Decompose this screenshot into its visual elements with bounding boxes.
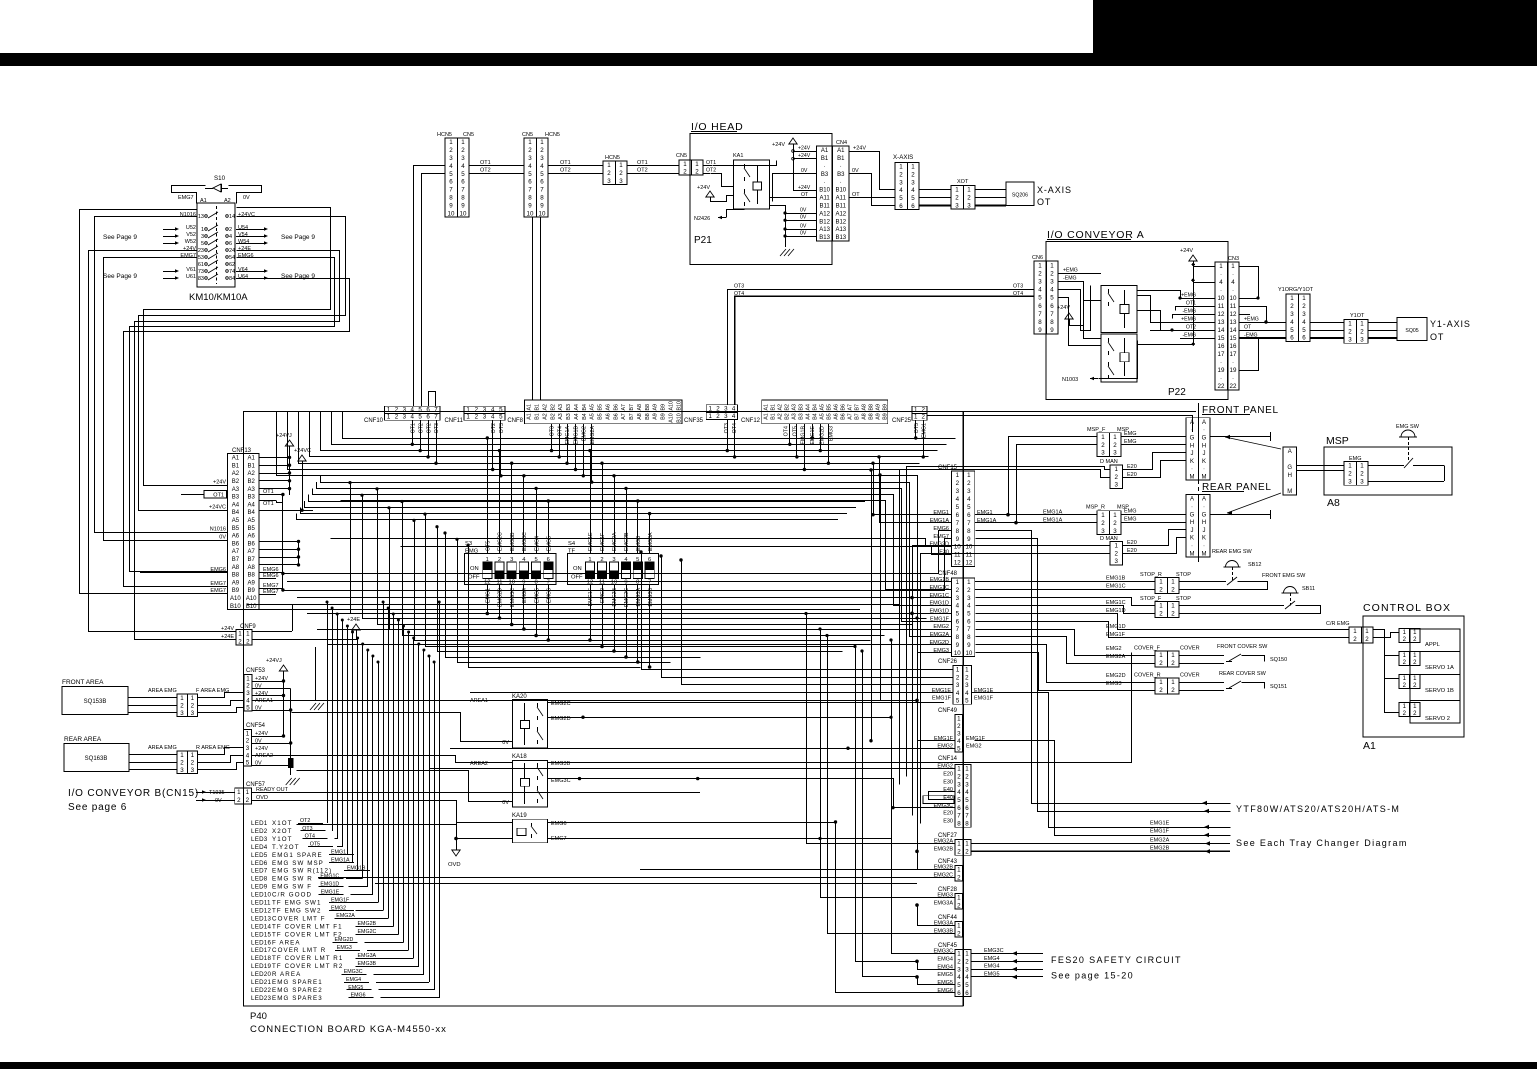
svg-text:A3: A3 <box>558 404 564 411</box>
svg-text:COVER LMT R: COVER LMT R <box>272 947 326 954</box>
svg-text:J: J <box>1203 451 1206 457</box>
svg-text:3: 3 <box>956 595 960 602</box>
svg-text:AREA2: AREA2 <box>255 753 273 759</box>
svg-text:+24VJ: +24VJ <box>266 658 282 664</box>
wire feed CNF45 EMG6 from KA19 <box>836 823 956 993</box>
svg-text:Y1OT: Y1OT <box>1350 313 1365 319</box>
wire MSP internal loop <box>1368 465 1404 467</box>
wire STOP_F loop <box>1179 605 1284 607</box>
svg-text:CN5: CN5 <box>676 153 687 159</box>
svg-text:3: 3 <box>528 155 532 162</box>
svg-text:4: 4 <box>732 406 736 413</box>
svg-text:OT1: OT1 <box>480 160 491 166</box>
svg-text:P22: P22 <box>1168 387 1186 398</box>
svg-text:B1: B1 <box>248 463 256 469</box>
svg-text:2: 2 <box>957 874 961 881</box>
footer black bar <box>0 1062 1537 1069</box>
connector SERVO 1A <box>1399 652 1420 666</box>
svg-text:B7: B7 <box>854 413 860 420</box>
svg-text:10: 10 <box>1230 295 1237 302</box>
svg-text:V52: V52 <box>186 232 196 238</box>
svg-text:T1935: T1935 <box>209 790 225 796</box>
svg-text:A8: A8 <box>861 413 867 420</box>
svg-text:EMG2D: EMG2D <box>1106 673 1126 679</box>
svg-text:1: 1 <box>957 951 961 958</box>
wire +24VC pin14 wrap <box>139 217 346 511</box>
wire 0V B3 <box>773 174 817 202</box>
svg-text:B6: B6 <box>232 541 240 547</box>
wire STOP_R loop <box>1179 581 1226 583</box>
svg-text:5: 5 <box>499 407 503 414</box>
svg-text:B4: B4 <box>812 404 818 411</box>
svg-text:+24V: +24V <box>213 480 226 486</box>
svg-text:4: 4 <box>957 789 961 796</box>
svg-text:EMG SPARE1: EMG SPARE1 <box>272 979 323 986</box>
svg-text:EMG SPARE3: EMG SPARE3 <box>272 995 323 1002</box>
svg-text:EMG2B: EMG2B <box>624 532 630 551</box>
svg-text:3: 3 <box>1050 278 1054 285</box>
svg-text:B8: B8 <box>868 404 874 411</box>
svg-text:CNF15: CNF15 <box>938 465 958 471</box>
svg-text:A8: A8 <box>637 404 643 411</box>
svg-text:EMG3A: EMG3A <box>358 953 377 959</box>
svg-text:2: 2 <box>246 738 250 745</box>
wire feed CNF45 EMG3C <box>892 641 956 954</box>
svg-text:2: 2 <box>695 168 699 175</box>
svg-text:EMG2B: EMG2B <box>934 847 954 853</box>
svg-text:5: 5 <box>1038 295 1042 302</box>
svg-text:G: G <box>1190 512 1195 518</box>
contactor KM10/KM10A <box>197 203 235 287</box>
svg-text:KA20: KA20 <box>512 694 527 700</box>
svg-text:1: 1 <box>965 667 969 674</box>
svg-text:3: 3 <box>483 414 487 421</box>
svg-text:24: 24 <box>229 248 235 254</box>
wire feed CNF5 EMG2 <box>450 748 848 750</box>
svg-text:·: · <box>1232 287 1234 294</box>
svg-text:A10: A10 <box>246 596 257 602</box>
svg-text:CN5: CN5 <box>522 132 533 138</box>
svg-text:1: 1 <box>1171 679 1175 686</box>
svg-text:A1: A1 <box>1363 740 1376 752</box>
svg-text:A: A <box>1202 420 1206 426</box>
svg-text:6: 6 <box>956 618 960 625</box>
svg-text:1: 1 <box>1353 628 1357 635</box>
wire feed CNF5 EMG1F tall vertical <box>871 471 873 741</box>
svg-text:B10: B10 <box>835 188 846 194</box>
svg-text:E40: E40 <box>943 787 953 793</box>
svg-text:1: 1 <box>956 667 960 674</box>
wire S3 tops to bus <box>487 438 489 537</box>
svg-text:0V: 0V <box>502 800 509 806</box>
wire feeds CNF26 rows 1-3 <box>642 553 954 670</box>
svg-text:REAR AREA: REAR AREA <box>64 736 102 743</box>
svg-text:B8: B8 <box>232 573 240 579</box>
svg-text:A7: A7 <box>232 549 240 555</box>
svg-text:6: 6 <box>899 203 903 210</box>
svg-text:A4: A4 <box>574 404 580 411</box>
wire band rows below CNF13 <box>247 604 900 606</box>
svg-text:B9: B9 <box>661 413 667 420</box>
svg-text:1: 1 <box>695 161 699 168</box>
svg-text:3: 3 <box>1113 528 1117 535</box>
svg-text:2: 2 <box>1353 636 1357 643</box>
svg-text:A10: A10 <box>668 401 674 410</box>
svg-text:1: 1 <box>191 695 195 702</box>
svg-text:A12: A12 <box>819 211 830 217</box>
svg-text:1: 1 <box>1360 463 1364 470</box>
svg-text:2: 2 <box>1159 660 1163 667</box>
svg-text:2: 2 <box>956 587 960 594</box>
svg-text:8: 8 <box>956 634 960 641</box>
svg-text:2: 2 <box>1365 636 1369 643</box>
svg-text:2: 2 <box>461 147 465 154</box>
svg-text:EMG1F: EMG1F <box>934 736 954 742</box>
wire EMG1C row <box>975 589 1155 591</box>
svg-text:OT: OT <box>1430 332 1444 342</box>
svg-text:4: 4 <box>911 187 915 194</box>
wire CN3 OT <box>1239 330 1286 332</box>
svg-text:11: 11 <box>599 580 605 586</box>
svg-text:B10: B10 <box>676 401 682 410</box>
svg-text:1: 1 <box>238 631 242 638</box>
svg-text:LED21: LED21 <box>251 979 271 986</box>
svg-text:10: 10 <box>527 210 534 217</box>
svg-text:EMG7: EMG7 <box>180 253 196 259</box>
svg-text:B5: B5 <box>826 404 832 411</box>
svg-text:K: K <box>1190 536 1194 542</box>
svg-text:7: 7 <box>967 520 971 527</box>
svg-text:+24E: +24E <box>347 617 360 623</box>
svg-text:A4: A4 <box>805 413 811 420</box>
svg-text:B1: B1 <box>232 463 240 469</box>
svg-text:0V: 0V <box>243 195 250 201</box>
wire EMG7 long row <box>283 539 952 591</box>
svg-text:MSP_F: MSP_F <box>1087 427 1106 433</box>
svg-text:FES20 SAFETY CIRCUIT: FES20 SAFETY CIRCUIT <box>1051 955 1182 965</box>
svg-text:2: 2 <box>1348 329 1352 336</box>
svg-text:8: 8 <box>540 194 544 201</box>
svg-text:1: 1 <box>1290 295 1294 302</box>
wire CNF12 signal drops <box>789 424 791 445</box>
svg-text:2: 2 <box>1101 520 1105 527</box>
svg-text:AREA EMG: AREA EMG <box>148 688 177 694</box>
svg-text:CNF12: CNF12 <box>741 418 761 424</box>
svg-text:2: 2 <box>1360 329 1364 336</box>
svg-text:B4: B4 <box>232 510 240 516</box>
svg-text:+24V: +24V <box>772 142 785 148</box>
svg-text:LED18: LED18 <box>251 955 271 962</box>
svg-text:2: 2 <box>475 414 479 421</box>
svg-text:5: 5 <box>965 982 969 989</box>
svg-text:OT2: OT2 <box>706 168 716 174</box>
svg-text:X2OT: X2OT <box>272 828 293 835</box>
svg-text:B1: B1 <box>837 156 845 162</box>
svg-text:0V: 0V <box>502 740 509 746</box>
svg-text:SB11: SB11 <box>1302 586 1315 592</box>
svg-text:OT4: OT4 <box>734 291 744 297</box>
wire EMG2D feed CNF15 <box>331 539 952 547</box>
svg-text:A5: A5 <box>819 404 825 411</box>
svg-text:3: 3 <box>957 966 961 973</box>
svg-text:B9: B9 <box>232 588 240 594</box>
svg-text:1: 1 <box>1403 653 1407 659</box>
svg-text:FRONT COVER SW: FRONT COVER SW <box>1217 644 1268 650</box>
svg-text:3: 3 <box>957 781 961 788</box>
svg-text:1: 1 <box>965 766 969 773</box>
svg-text:SQ151: SQ151 <box>1270 684 1287 690</box>
svg-text:1: 1 <box>1115 466 1119 473</box>
svg-text:7: 7 <box>1050 311 1054 318</box>
svg-text:OT2: OT2 <box>637 168 648 174</box>
svg-text:A10: A10 <box>230 596 241 602</box>
svg-text:B12: B12 <box>835 219 846 225</box>
svg-text:4: 4 <box>491 407 495 414</box>
svg-text:EMG7: EMG7 <box>210 581 226 587</box>
bridge CNF26-CNF5 EMG1F <box>918 701 956 741</box>
svg-text:3: 3 <box>911 179 915 186</box>
wire +EMG CN6 <box>1058 273 1101 275</box>
svg-text:10: 10 <box>1218 295 1225 302</box>
wire LED fan verticals <box>327 602 329 823</box>
svg-text:EMG1C: EMG1C <box>1106 584 1126 590</box>
svg-text:LED23: LED23 <box>251 995 271 1002</box>
svg-text:7: 7 <box>461 187 465 194</box>
svg-text:1: 1 <box>1413 630 1417 636</box>
svg-text:4: 4 <box>491 414 495 421</box>
svg-text:9: 9 <box>624 580 627 586</box>
svg-text:N2426: N2426 <box>694 216 710 222</box>
svg-text:OT5: OT5 <box>486 541 492 551</box>
svg-text:0V: 0V <box>852 168 859 174</box>
wire KA20 0V <box>292 713 513 742</box>
wire KA19 in <box>457 822 513 824</box>
svg-text:EMG3C: EMG3C <box>344 969 363 975</box>
svg-text:+24V: +24V <box>798 185 811 191</box>
svg-text:1: 1 <box>1101 434 1105 441</box>
svg-text:2: 2 <box>922 414 926 421</box>
svg-text:LED14: LED14 <box>251 923 271 930</box>
svg-text:TF COVER LMT F1: TF COVER LMT F1 <box>272 923 343 930</box>
svg-text:OT3: OT3 <box>434 423 440 433</box>
svg-text:A8: A8 <box>232 565 240 571</box>
svg-text:A3: A3 <box>791 404 797 411</box>
svg-text:B4: B4 <box>582 413 588 420</box>
svg-text:E30: E30 <box>943 779 953 785</box>
svg-text:B2: B2 <box>550 404 556 411</box>
svg-text:A: A <box>1190 420 1194 426</box>
wire AREA2 into KA18 <box>252 756 513 763</box>
svg-text:EMG3: EMG3 <box>337 945 352 951</box>
wire feed CNF45 EMG4 <box>856 647 918 962</box>
svg-text:8: 8 <box>956 528 960 535</box>
svg-text:2: 2 <box>528 147 532 154</box>
svg-text:B2: B2 <box>784 404 790 411</box>
svg-text:LED19: LED19 <box>251 963 271 970</box>
svg-text:LED20: LED20 <box>251 971 271 978</box>
svg-text:3: 3 <box>1113 450 1117 457</box>
svg-text:A2: A2 <box>542 404 548 411</box>
svg-text:7: 7 <box>540 187 544 194</box>
wire E30 front panel chain <box>900 470 1111 785</box>
svg-text:1: 1 <box>1171 603 1175 610</box>
svg-text:2: 2 <box>246 683 250 690</box>
svg-text:U52: U52 <box>186 225 196 231</box>
svg-text:1: 1 <box>1050 262 1054 269</box>
svg-text:2: 2 <box>246 638 250 645</box>
svg-text:3: 3 <box>246 690 250 697</box>
svg-text:+24V: +24V <box>1180 248 1193 254</box>
svg-text:2: 2 <box>238 638 242 645</box>
wire EMG1B row <box>975 581 1155 583</box>
wire EMG2D out <box>548 717 891 719</box>
svg-text:2: 2 <box>1159 611 1163 618</box>
svg-text:3: 3 <box>1101 528 1105 535</box>
wire EMG6 pin54 wrap <box>130 258 335 572</box>
svg-text:-EMG: -EMG <box>1182 333 1196 339</box>
svg-text:EMG6: EMG6 <box>551 821 567 827</box>
svg-text:EMG1E: EMG1E <box>588 532 594 551</box>
svg-text:1: 1 <box>1348 321 1352 328</box>
wire OT1 drop to CNF10 <box>414 166 446 407</box>
svg-text:A11: A11 <box>836 196 847 202</box>
svg-text:AREA2: AREA2 <box>470 761 488 767</box>
wire EMG6 row to YTF <box>976 531 1231 804</box>
svg-text:3: 3 <box>201 234 204 240</box>
svg-text:M: M <box>1287 489 1292 495</box>
svg-text:REAR EMG SW: REAR EMG SW <box>1212 549 1253 555</box>
svg-text:10: 10 <box>954 650 961 657</box>
wires CNF13 right to +24VJ rail <box>259 457 290 459</box>
svg-text:I/O CONVEYOR B(CN15): I/O CONVEYOR B(CN15) <box>68 788 199 799</box>
svg-text:A9: A9 <box>232 580 240 586</box>
svg-text:5: 5 <box>967 611 971 618</box>
svg-text:EMG2D: EMG2D <box>929 640 949 646</box>
svg-text:B8: B8 <box>248 573 256 579</box>
svg-text:EMG1A: EMG1A <box>1043 518 1063 524</box>
svg-text:1: 1 <box>965 841 969 848</box>
svg-text:2: 2 <box>191 759 195 766</box>
svg-text:12: 12 <box>1230 311 1237 318</box>
svg-text:B9: B9 <box>882 413 888 420</box>
svg-text:2: 2 <box>965 958 969 965</box>
wire OT1 vertical rail <box>282 495 284 591</box>
svg-text:Y1-AXIS: Y1-AXIS <box>1430 319 1471 329</box>
wire feed CNF43 partial row <box>375 883 917 885</box>
svg-text:7: 7 <box>957 813 961 820</box>
svg-text:Y1ORG/Y1OT: Y1ORG/Y1OT <box>1278 287 1314 293</box>
wire CNF54 0V to ground <box>252 765 291 767</box>
svg-text:APPL: APPL <box>1425 642 1441 648</box>
svg-text:10: 10 <box>448 210 455 217</box>
svg-text:6: 6 <box>967 618 971 625</box>
svg-text:0V: 0V <box>800 224 807 230</box>
svg-text:9: 9 <box>967 536 971 543</box>
wire feed CNF14 EMG3C <box>893 807 955 809</box>
svg-text:4: 4 <box>246 697 250 704</box>
svg-text:OT3: OT3 <box>724 423 730 433</box>
wire +24VC junction <box>300 509 303 512</box>
svg-text:0V: 0V <box>219 535 226 541</box>
wire EMG1D row to C/R EMG <box>976 614 1350 630</box>
svg-text:CNF10: CNF10 <box>364 418 384 424</box>
svg-text:OT5: OT5 <box>914 423 920 433</box>
svg-text:EMG6: EMG6 <box>937 988 953 994</box>
svg-text:A1: A1 <box>837 148 845 154</box>
wire EMG3 row <box>976 653 1156 691</box>
svg-text:2: 2 <box>1302 303 1306 310</box>
svg-text:10: 10 <box>954 544 961 551</box>
svg-text:12: 12 <box>954 560 961 567</box>
svg-text:SERVO 1B: SERVO 1B <box>1425 688 1454 694</box>
svg-text:1: 1 <box>1038 262 1042 269</box>
svg-text:1: 1 <box>967 187 971 194</box>
svg-text:V61: V61 <box>186 267 196 273</box>
svg-text:11: 11 <box>966 552 973 559</box>
svg-text:CNF11: CNF11 <box>444 418 463 424</box>
svg-text:EMG3C: EMG3C <box>522 532 528 551</box>
svg-text:OT1: OT1 <box>263 489 274 495</box>
svg-text:E30: E30 <box>943 819 953 825</box>
svg-text:REAR COVER SW: REAR COVER SW <box>1219 671 1267 677</box>
svg-text:·: · <box>1220 375 1222 382</box>
svg-text:EMG2: EMG2 <box>966 743 982 749</box>
svg-text:+24V: +24V <box>798 146 811 152</box>
svg-text:1: 1 <box>1302 295 1306 302</box>
svg-text:·: · <box>840 164 842 170</box>
svg-text:LED1: LED1 <box>251 820 268 827</box>
svg-text:B4: B4 <box>812 413 818 420</box>
svg-text:3: 3 <box>180 710 184 717</box>
svg-text:1: 1 <box>967 472 971 479</box>
svg-text:EMG SW F: EMG SW F <box>272 884 312 891</box>
svg-text:2: 2 <box>965 674 969 681</box>
svg-text:EMG1: EMG1 <box>933 510 949 516</box>
svg-text:5: 5 <box>201 241 204 247</box>
svg-text:A2: A2 <box>542 413 548 420</box>
svg-text:3: 3 <box>461 155 465 162</box>
wire chain verticals into CNF8 <box>532 217 534 400</box>
svg-text:SQ05: SQ05 <box>1405 328 1418 334</box>
svg-text:3: 3 <box>1360 336 1364 343</box>
svg-text:A5: A5 <box>232 518 240 524</box>
svg-text:2: 2 <box>965 773 969 780</box>
svg-text:A8: A8 <box>637 413 643 420</box>
wire S3 switch verticals <box>487 537 489 554</box>
svg-text:B3: B3 <box>566 404 572 411</box>
svg-text:A2: A2 <box>777 413 783 420</box>
svg-text:2: 2 <box>1360 471 1364 478</box>
svg-text:A6: A6 <box>605 404 611 411</box>
svg-text:B10: B10 <box>819 188 830 194</box>
svg-text:OT4: OT4 <box>783 426 789 436</box>
connector A-M front panel <box>1186 418 1210 480</box>
svg-text:54: 54 <box>229 255 235 261</box>
svg-text:5: 5 <box>540 171 544 178</box>
svg-text:3: 3 <box>956 488 960 495</box>
svg-text:KM10/KM10A: KM10/KM10A <box>189 292 248 303</box>
svg-text:T.Y2OT: T.Y2OT <box>272 844 300 851</box>
svg-text:B4: B4 <box>248 510 256 516</box>
wire EMG1D row <box>976 606 1156 614</box>
svg-text:B6: B6 <box>613 413 619 420</box>
svg-text:EMG SW R: EMG SW R <box>272 876 313 883</box>
svg-text:+EMG: +EMG <box>1063 268 1078 274</box>
wire MSP_F to A-M front <box>1121 436 1186 438</box>
svg-text:1: 1 <box>955 187 959 194</box>
svg-text:2: 2 <box>475 407 479 414</box>
svg-text:A1: A1 <box>821 148 829 154</box>
